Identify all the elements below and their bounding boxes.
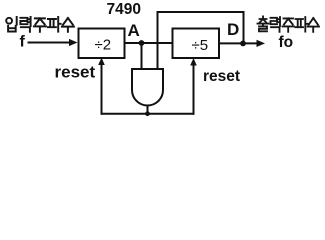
- AND gate (reset decoder, points down): [132, 69, 163, 105]
- wire reset bus (bottom horizontal): [102, 113, 194, 115]
- wire feedback: top horizontal run: [158, 11, 244, 13]
- svg-text:reset: reset: [203, 68, 240, 85]
- 주: [35, 18, 45, 24]
- 파: [296, 19, 304, 27]
- svg-text:÷5: ÷5: [192, 37, 209, 54]
- svg-text:D: D: [227, 20, 239, 39]
- wire output arrow: [243, 42, 258, 44]
- wire left reset riser with arrow into ÷2: [101, 64, 103, 114]
- junction dot node D: [240, 41, 246, 47]
- 수: [63, 18, 73, 25]
- wire right reset riser with arrow into ÷5: [193, 65, 195, 114]
- 력: [20, 18, 27, 24]
- svg-text:f: f: [20, 34, 26, 51]
- 수: [309, 18, 318, 25]
- junction dot AND output on reset bus: [145, 111, 150, 116]
- wire node A down to AND gate input 1: [141, 43, 143, 69]
- wire feedback: node D riser up: [243, 12, 245, 43]
- label 입력주파수 (input frequency, Korean): [6, 17, 74, 32]
- junction dot node A: [139, 40, 145, 46]
- label 출력주파수 (output frequency, Korean): [258, 16, 320, 31]
- wire feedback: drop down to AND gate input 2 (crosses node A wire): [157, 12, 159, 69]
- svg-text:7490: 7490: [107, 1, 141, 18]
- wire node A: ÷2 output to ÷5 input: [125, 42, 172, 44]
- svg-text:A: A: [128, 21, 140, 40]
- 입: [6, 18, 12, 24]
- 력: [271, 18, 278, 24]
- svg-text:÷2: ÷2: [95, 36, 112, 53]
- wire ÷5 output to node D: [220, 42, 244, 44]
- block divide-by-2 (7490 ÷2 section): [79, 29, 125, 59]
- svg-text:reset: reset: [55, 63, 96, 82]
- wire input arrow into ÷2: [29, 42, 71, 44]
- 파: [48, 19, 56, 27]
- 출: [260, 16, 267, 22]
- 주: [284, 18, 294, 24]
- block divide-by-5 (7490 ÷5 section): [173, 29, 220, 59]
- wire AND gate output down to reset bus: [147, 106, 149, 114]
- svg-text:fo: fo: [279, 34, 294, 51]
